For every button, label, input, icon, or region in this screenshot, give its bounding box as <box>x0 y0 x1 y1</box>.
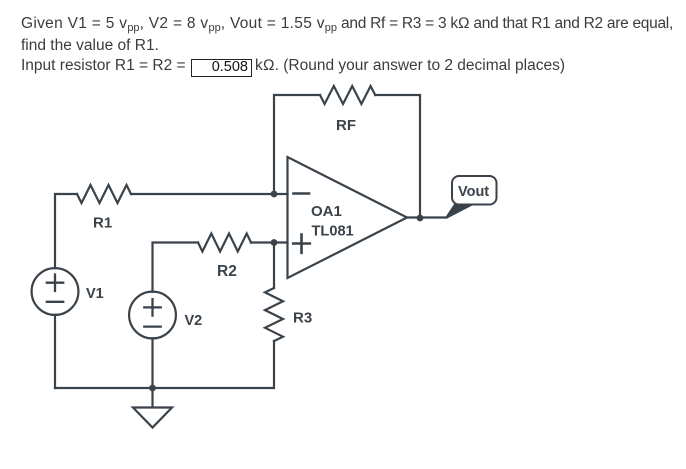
svg-text:R2: R2 <box>217 263 237 280</box>
svg-text:V2: V2 <box>185 313 203 329</box>
wire V1 bottom <box>54 315 56 388</box>
resistor R3 <box>265 288 283 341</box>
wire V2 to R2 <box>153 243 199 292</box>
node non-inverting input junction <box>271 239 278 246</box>
svg-text:R1: R1 <box>93 215 112 232</box>
resistor R2 <box>198 234 251 252</box>
wire R2 to non-inverting input <box>251 241 288 243</box>
resistor R1 <box>77 185 131 203</box>
wire V2 bottom <box>151 338 153 388</box>
problem text line 3 after box <box>255 55 565 77</box>
V2 plus mark <box>144 299 160 315</box>
wire feedback right <box>375 95 420 218</box>
svg-text:OA1: OA1 <box>311 203 342 220</box>
svg-text:V1: V1 <box>86 286 104 302</box>
node inverting input junction <box>271 191 278 198</box>
op-amp minus mark <box>294 192 310 195</box>
node ground junction <box>149 385 156 392</box>
wire feedback left <box>274 95 320 194</box>
svg-text:RF: RF <box>336 117 356 134</box>
problem text line 3 <box>21 55 186 77</box>
V1 plus mark <box>47 275 63 292</box>
svg-text:Vout: Vout <box>458 184 489 200</box>
voltage source V1 circle <box>32 268 79 315</box>
voltage source V2 circle <box>129 292 176 339</box>
problem text line 2 <box>21 35 159 57</box>
wire R3 to bottom rail <box>55 341 274 388</box>
Vout callout tail <box>446 205 472 219</box>
Vout callout box <box>452 176 497 205</box>
resistor RF <box>320 86 375 104</box>
V2 minus mark <box>144 325 160 327</box>
op-amp plus mark <box>293 235 310 253</box>
op-amp OA1 triangle <box>288 157 408 278</box>
svg-text:TL081: TL081 <box>312 224 354 240</box>
ground <box>133 388 172 428</box>
wire node to R3 <box>273 243 275 289</box>
problem text line 1 <box>21 13 673 36</box>
wire V1 to R1 <box>55 194 77 268</box>
svg-text:R3: R3 <box>293 310 312 327</box>
node output junction <box>417 215 424 222</box>
answer input box 0.508 <box>191 59 252 77</box>
wire R1 to inverting input <box>131 193 288 195</box>
V1 minus mark <box>47 301 63 303</box>
wire op-amp output <box>407 216 446 218</box>
